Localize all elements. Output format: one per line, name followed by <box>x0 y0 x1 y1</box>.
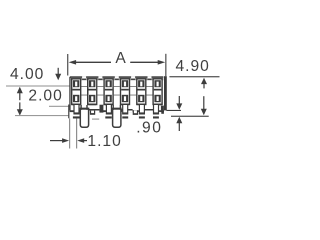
extension line at y86 (4.00/2.00 reference) <box>6 86 70 87</box>
contact cavity 3 <box>103 78 113 105</box>
SMT lead pin 4 with foot <box>122 105 128 119</box>
contact cavity 5 <box>136 78 146 105</box>
top reference line right (body top extended) <box>169 76 219 77</box>
dimension 2.00 arrow down <box>17 109 23 115</box>
1.10 extension line right <box>76 118 77 148</box>
top edge notch 4 <box>131 76 135 78</box>
contact cavity 1 <box>71 78 81 105</box>
SMT lead pin 3 with foot <box>105 105 112 119</box>
.90 lower reference line <box>171 116 209 117</box>
SMT lead pin 6 with foot <box>153 105 159 119</box>
mold line gap 5 <box>147 85 153 88</box>
connector body outline <box>70 76 164 111</box>
top edge notch 3 <box>115 76 119 78</box>
body top edge <box>70 76 164 78</box>
back-row lead behind gap 2 <box>100 105 104 113</box>
back-row lead behind gap 4 <box>133 110 138 115</box>
dimension 4.90 arrow down <box>201 109 207 115</box>
svg-text:2.00: 2.00 <box>28 87 62 104</box>
dimension 1.10 arrow left <box>77 138 84 143</box>
dimension A extension line left <box>67 54 68 76</box>
gap pillar borders above post 2 <box>113 105 114 110</box>
body bottom edge (stepped) <box>70 110 74 112</box>
dimension A line left segment <box>76 62 112 63</box>
svg-text:A: A <box>115 50 126 67</box>
top edge notch 5 <box>148 76 152 78</box>
svg-text:1.10: 1.10 <box>87 133 121 150</box>
mounting post 2 <box>113 108 121 127</box>
SMT lead pin 1 with foot <box>73 105 80 119</box>
mold line gap 3 <box>114 85 120 88</box>
top edge notch 2 <box>98 76 102 78</box>
dimension A line right segment <box>130 62 158 63</box>
extension line at y115.6 (bottom reference) <box>15 115 68 116</box>
body bottom raised step 3 <box>145 110 154 112</box>
body bottom raised step 1 <box>89 110 100 112</box>
dimension .90 arrow up <box>176 117 182 123</box>
body bottom raised step 2 <box>122 110 133 112</box>
gap pillar borders above post 1 <box>80 105 81 110</box>
body right end wall <box>164 76 167 110</box>
dimension 4.00 arrow down <box>55 74 61 80</box>
body left wall <box>69 77 70 110</box>
contact cavity 6 <box>152 78 162 105</box>
dimension .90 arrow down <box>176 103 182 109</box>
dimension A arrow left <box>69 60 77 65</box>
dimension 4.90 arrow up <box>201 78 207 84</box>
contact cavity 4 <box>120 78 130 105</box>
dimension 2.00 arrow up <box>17 87 23 93</box>
right end filler block <box>161 106 164 111</box>
SMT lead pin 5 with foot <box>139 105 145 119</box>
top edge notch 1 <box>82 76 86 78</box>
svg-text:4.90: 4.90 <box>176 58 210 75</box>
contact cavity 2 <box>87 78 97 105</box>
dimension A arrow right <box>158 60 166 65</box>
pin 1 foot toe edge <box>68 105 69 119</box>
dimension 1.10 arrow right <box>62 138 69 143</box>
mounting post 1 <box>80 108 88 127</box>
extension line at y106 (2.00 reference) <box>49 106 70 107</box>
svg-text:.90: .90 <box>136 119 162 136</box>
1.10 extension line left <box>69 118 70 148</box>
svg-text:4.00: 4.00 <box>10 66 44 83</box>
dimension A extension line right <box>165 54 166 76</box>
mold line gap 1 <box>81 85 87 88</box>
right end stub tail <box>161 110 164 113</box>
.90 upper reference line <box>166 110 181 111</box>
mold line gap 4 <box>130 85 136 88</box>
mold line gap 2 <box>97 85 103 88</box>
body bottom edge base <box>70 110 164 112</box>
SMT lead pin 2 (short, behind) <box>90 111 99 120</box>
body top gray band <box>71 78 164 80</box>
